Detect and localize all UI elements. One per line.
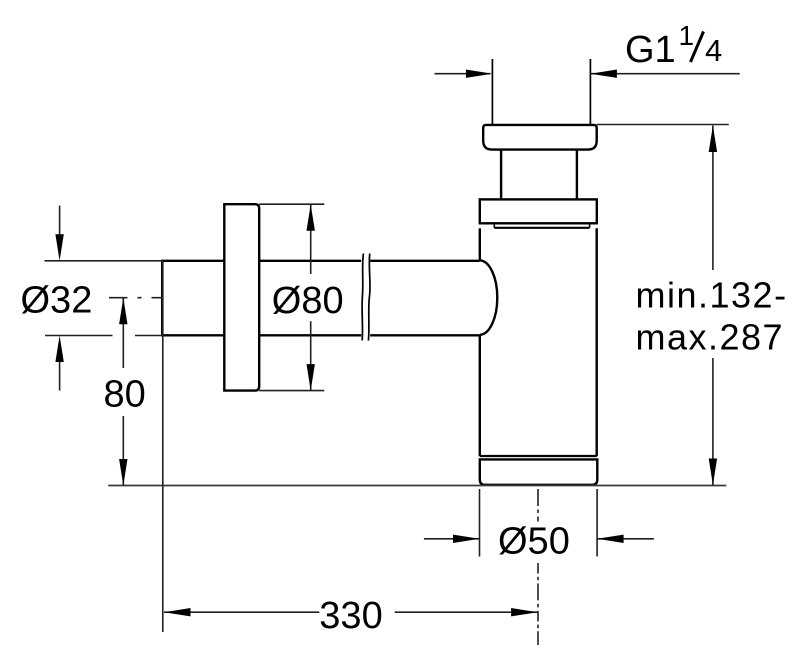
min/max top arrowhead — [709, 126, 717, 153]
80 bottom arrowhead — [119, 459, 127, 486]
trap top flange nut — [483, 125, 597, 150]
Ø50 dimension line left segment — [424, 538, 480, 540]
trap neck right edge — [576, 150, 578, 200]
svg-text:G1: G1 — [625, 29, 676, 71]
inlet pipe bottom line (flange to break) — [259, 334, 361, 336]
svg-text:Ø50: Ø50 — [498, 520, 570, 562]
Ø32 centreline leader (dash-dot) — [109, 297, 162, 299]
svg-text:min.132-: min.132- — [636, 275, 788, 316]
pipe domed end inside cup — [480, 260, 498, 334]
trap vertical centreline (dash-dot) — [537, 489, 539, 522]
inlet pipe bottom line (left of wall flange) — [162, 334, 224, 336]
trap locking ring — [480, 199, 597, 223]
inlet pipe bottom line (break to trap body) — [370, 334, 480, 336]
330 left arrowhead — [164, 608, 191, 616]
trap cup bottom edge — [480, 455, 597, 457]
trap tailpipe left edge / G1 extension — [491, 59, 493, 125]
Ø80 top arrowhead — [307, 204, 315, 231]
Ø80 top extension line — [259, 203, 324, 205]
330 dimension line right segment — [395, 611, 538, 613]
trap cup right edge — [596, 228, 598, 456]
Ø32 top extension line — [45, 260, 163, 262]
seam tick left — [493, 224, 495, 228]
trap bottom cap — [480, 459, 598, 484]
Ø32 top outside arrowhead — [55, 234, 63, 260]
svg-text:1: 1 — [679, 20, 695, 51]
Ø32 bottom extension line left part — [45, 335, 113, 337]
Ø80 dimension line lower segment — [310, 321, 312, 390]
Ø50 left extension line — [479, 489, 481, 557]
inlet pipe top line (left of wall flange) — [162, 260, 224, 262]
G1 1/4 dimension line left segment — [435, 73, 491, 75]
svg-text:Ø80: Ø80 — [272, 280, 344, 322]
trap neck left edge — [500, 150, 502, 200]
min/max top extension line — [597, 124, 729, 126]
Ø50 dimension line right segment — [597, 538, 654, 540]
Ø80 bottom extension line — [259, 390, 324, 392]
min/max dimension line lower segment — [712, 358, 714, 485]
Ø50 right arrowhead — [597, 535, 624, 543]
pipe break squiggle left — [362, 254, 363, 341]
330 dimension line left segment — [164, 611, 319, 613]
min/max dimension line upper segment — [712, 126, 714, 271]
330 left extension line — [162, 261, 164, 632]
trap tailpipe right edge / G1 extension — [589, 59, 591, 125]
svg-text:max.287: max.287 — [636, 317, 785, 358]
min/max bottom arrowhead — [709, 459, 717, 486]
svg-text:Ø32: Ø32 — [21, 280, 93, 322]
Ø50 left arrowhead — [453, 535, 480, 543]
Ø80 dimension line upper segment — [310, 204, 312, 274]
wall flange (escutcheon) — [224, 204, 259, 390]
trap cup left edge upper segment — [479, 228, 481, 260]
Ø32 top outside arrow tail — [59, 206, 61, 236]
Ø32 bottom outside arrowhead — [55, 336, 63, 363]
G1 1/4 dimension line right segment — [590, 73, 739, 75]
floor reference baseline — [108, 485, 726, 487]
80 top arrowhead — [119, 298, 127, 325]
pipe break squiggle right — [368, 254, 370, 341]
Ø80 bottom arrowhead — [307, 364, 315, 391]
Ø50 right extension line — [596, 489, 598, 557]
80 dimension line upper segment — [122, 298, 124, 368]
svg-text:4: 4 — [705, 33, 722, 68]
Ø32 bottom outside arrow tail — [59, 360, 61, 391]
330 right arrowhead — [511, 608, 537, 616]
svg-text:80: 80 — [104, 373, 146, 415]
Ø32 bottom extension line right part — [135, 335, 162, 337]
seam line below ring — [494, 227, 589, 229]
inlet pipe top line (break to trap body) — [370, 260, 480, 262]
inlet pipe left end cap — [161, 260, 163, 337]
G1 1/4 left arrowhead — [466, 70, 493, 78]
inlet pipe top line (flange to break) — [259, 260, 361, 262]
80 dimension line lower segment — [122, 416, 124, 486]
seam tick right — [589, 224, 591, 228]
svg-text:330: 330 — [319, 595, 382, 637]
G1 1/4 right arrowhead — [590, 70, 617, 78]
trap cup left edge lower segment — [479, 335, 481, 456]
